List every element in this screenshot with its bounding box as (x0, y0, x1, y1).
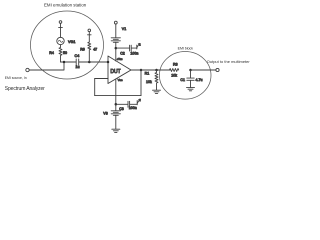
svg-text:V3: V3 (103, 111, 107, 115)
wire C3 to arrow (130, 103, 137, 105)
node junction x64 (63, 61, 66, 64)
tick bar (59, 26, 63, 28)
wire Vee to C3 (116, 103, 128, 105)
wire battery to ground (115, 115, 117, 129)
svg-text:C4: C4 (75, 54, 80, 58)
ground under R1 (153, 89, 161, 91)
svg-text:R3: R3 (173, 62, 178, 66)
wire feedback left (94, 79, 96, 96)
node C1 junction (189, 69, 192, 72)
svg-text:1u: 1u (75, 65, 79, 69)
svg-text:Output to the multimeter: Output to the multimeter (207, 59, 250, 64)
svg-text:50: 50 (63, 51, 67, 55)
EMI block circle (159, 52, 211, 100)
svg-text:V1: V1 (122, 27, 126, 31)
svg-text:47: 47 (93, 48, 97, 52)
svg-text:C3: C3 (119, 107, 124, 111)
wire to C2 (116, 47, 129, 49)
node +IN (107, 61, 110, 64)
power arrow (137, 44, 139, 48)
svg-text:10k: 10k (146, 80, 152, 84)
resistor R4 (59, 45, 62, 62)
wire -IN (95, 78, 108, 80)
op-amp DUT (108, 56, 131, 84)
svg-text:4.7u: 4.7u (196, 78, 203, 82)
wire feedback right (140, 70, 142, 96)
capacitor C4 (75, 59, 77, 65)
node R1 junction (155, 69, 158, 72)
wire C1 (190, 70, 192, 78)
wire C2 to arrow (132, 47, 137, 49)
svg-text:100n: 100n (130, 51, 138, 55)
node junction x89 (88, 61, 91, 64)
wire (88, 32, 90, 42)
resistor R1 (155, 70, 158, 90)
wire feedback bottom (95, 95, 141, 97)
tick bar (88, 34, 92, 36)
svg-text:+Vcc: +Vcc (117, 57, 124, 61)
output terminal (216, 68, 219, 71)
svg-text:100n: 100n (129, 106, 137, 110)
svg-text:Spectrum Analyzer: Spectrum Analyzer (5, 86, 45, 92)
node Vee junction (115, 103, 118, 106)
wire C1 to ground (190, 80, 192, 87)
wire (115, 24, 117, 37)
capacitor C2 (129, 45, 131, 51)
power arrow (137, 100, 139, 104)
wire opamp output (131, 69, 170, 71)
wire to output terminal (192, 69, 216, 71)
terminal top of VG1 branch (59, 21, 62, 24)
wire input terminal to node (29, 62, 64, 70)
wire main input bus y62 (61, 61, 77, 63)
svg-text:EMI source, In: EMI source, In (5, 76, 27, 80)
wire opamp Vee pin (115, 79, 117, 111)
svg-text:Vee: Vee (118, 78, 123, 82)
svg-text:2: 2 (139, 99, 141, 102)
svg-text:DUT: DUT (110, 69, 120, 75)
svg-text:C2: C2 (120, 52, 125, 56)
svg-text:R6: R6 (80, 48, 85, 52)
source VG1 (57, 37, 64, 44)
battery V1 (111, 37, 120, 39)
svg-text:VG1: VG1 (68, 40, 75, 44)
capacitor C1 (187, 77, 194, 79)
svg-text:EMI emulation station: EMI emulation station (44, 2, 87, 7)
wire battery to opamp Vcc pin (115, 42, 117, 61)
battery V3 (111, 110, 120, 112)
input terminal (26, 68, 29, 71)
ground under V3 (112, 128, 120, 130)
EMI emulation station ellipse (31, 11, 104, 79)
svg-text:R1: R1 (145, 72, 150, 76)
wire (60, 23, 62, 37)
power arrow bar (136, 45, 138, 49)
capacitor C3 (127, 101, 129, 107)
node output junction (140, 69, 143, 72)
resistor R3 (170, 69, 179, 72)
svg-text:2: 2 (139, 43, 141, 46)
ground under C1 (187, 87, 195, 89)
terminal top of V1 branch (114, 21, 117, 24)
svg-text:R4: R4 (49, 51, 54, 55)
svg-text:10k: 10k (171, 73, 177, 77)
power arrow bar (136, 101, 138, 105)
svg-text:C1: C1 (180, 78, 185, 82)
svg-text:EMI block: EMI block (178, 46, 194, 50)
resistor R6 (88, 42, 91, 62)
terminal top of R6 branch (88, 29, 91, 32)
node junction Vcc (115, 47, 118, 50)
